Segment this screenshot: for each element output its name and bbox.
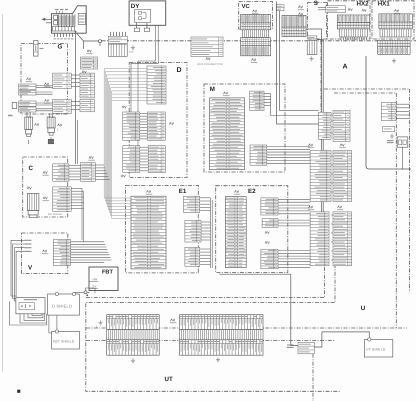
svg-text:HX2: HX2 [357, 1, 370, 8]
S lower comb [307, 40, 317, 54]
M upper right connector [250, 91, 264, 110]
wire E2 bottom to UT interlock [219, 274, 298, 345]
A interconnect strip P2 left [310, 151, 331, 202]
shield interconnection wires [49, 291, 89, 333]
CRT socket top pin labels 42 43 11 [55, 9, 68, 11]
board UT outline [86, 264, 340, 391]
board U outline right edge [395, 93, 397, 328]
wire below plug G1 [28, 140, 30, 144]
wires C upper to relay block [69, 165, 81, 180]
junction dot at socket corner [75, 31, 77, 33]
connector icon P1 left [309, 144, 313, 146]
svg-text:A: A [343, 64, 348, 71]
C lower connector [53, 187, 71, 211]
svg-text:HR: HR [93, 278, 99, 282]
DY yoke connector cells [108, 36, 127, 43]
svg-text:E2: E2 [248, 188, 256, 195]
links between P strips [331, 115, 333, 260]
arrow to CRT socket [42, 18, 51, 23]
board HX1 outline [372, 1, 414, 39]
DY lead wires to D board [131, 25, 158, 150]
wires M upper right bundle to A [264, 94, 319, 116]
connector icon V [43, 250, 47, 252]
connector icon above C relay [89, 156, 93, 158]
wires E1 right connectors to channel [200, 198, 213, 268]
wires C lower to vertical pair [71, 188, 83, 242]
connector icon HX1 [395, 10, 399, 12]
connector icon E2 a [265, 231, 269, 233]
board A outline right edge [409, 89, 411, 292]
svg-text:Lxx: Lxx [129, 51, 134, 54]
ground icon below S comb [310, 57, 314, 61]
svg-text:G: G [58, 44, 63, 51]
UT interlock 3-row block [298, 342, 314, 354]
board A inner top line [324, 88, 410, 90]
board E1 outline [126, 185, 199, 273]
svg-text:BUS CONNECTOR: BUS CONNECTOR [198, 63, 223, 66]
ground icon below UT strip 2 [216, 358, 220, 362]
connector icon C upper [43, 171, 47, 173]
connector G-left row pair d [19, 107, 36, 112]
svg-text:UT SHIELD: UT SHIELD [366, 348, 386, 352]
board G outline [21, 44, 68, 115]
connector icon D bottom-left [121, 175, 125, 177]
wires M lower right to A strips [267, 147, 310, 164]
connector icon D left [122, 106, 126, 108]
UT lower junction line [86, 340, 335, 342]
wires plugs up [27, 112, 53, 118]
CRT socket top label ticks [57, 11, 63, 14]
connector icon above M strip [224, 92, 228, 94]
E2 right connector lower [261, 249, 278, 269]
svg-text:FBT: FBT [102, 270, 113, 276]
wires V to E1 [71, 242, 112, 263]
wire socket to C column [75, 32, 77, 164]
UT strip 1 pin hatch [107, 330, 160, 340]
wire socket pins to node [77, 33, 99, 49]
U board connector [381, 103, 396, 121]
long wire VC to M pair b [280, 11, 319, 111]
board A outline left edge [320, 41, 322, 112]
HX1 lower comb on A [378, 40, 410, 54]
CRT socket inner elements [54, 15, 58, 25]
connector icon above E2 strip [235, 190, 239, 192]
VC right comb (to S) [282, 15, 306, 36]
CRT socket side label box [78, 14, 85, 25]
fuse label [40, 48, 44, 50]
svg-text:M: M [210, 86, 215, 93]
dash-dot stub below UT interlock block [312, 354, 314, 401]
E2 right connector ac [262, 219, 278, 228]
E1 right connector upper [184, 196, 200, 212]
wire AC box drop [402, 147, 404, 169]
ground icon near yoke connector [131, 46, 135, 50]
board D outline [129, 63, 187, 178]
HX1 cable hatch [380, 29, 411, 37]
E1 board main strip [131, 196, 166, 269]
wires C relay to E1 bundle [95, 165, 109, 180]
node circle on bus [99, 40, 102, 43]
board E2 outline [216, 186, 288, 273]
connector icon E2 b [265, 241, 269, 243]
wires U connector to A edge [396, 104, 410, 118]
CRT socket pin name labels [54, 38, 74, 40]
svg-text:UT: UT [165, 376, 173, 383]
page artifact mark bottom-left [17, 390, 20, 393]
svg-text:E1: E1 [179, 188, 187, 195]
ground icon below UT strip 1 [131, 358, 135, 362]
connector G-mid upper [53, 73, 72, 89]
links between D pair blocks lower [140, 147, 149, 171]
board DY box [129, 1, 166, 25]
ground icon below HX1 lower comb [392, 59, 396, 63]
DY terminal a [134, 28, 139, 31]
AC icon left of interlock [287, 345, 294, 347]
connector icon VC top [253, 10, 257, 12]
board M outline [204, 84, 285, 172]
junction dot below shield node [86, 294, 88, 296]
power unit boundary wire [366, 56, 411, 169]
U small relay box [383, 126, 395, 131]
ground icon U region [390, 134, 394, 138]
connector icon CN G-mid lower [45, 99, 49, 101]
connector icon CN G-mid upper [45, 83, 49, 85]
D pair block upper-right [147, 112, 165, 140]
svg-text:D SHIELD: D SHIELD [52, 304, 72, 309]
board C outline [23, 157, 68, 217]
svg-text:L: L [57, 128, 59, 132]
connector G-left row pair a [19, 84, 36, 90]
connector icon C lower [43, 197, 47, 199]
connector G-left row pair c [19, 101, 36, 106]
main bus dash-dot line [102, 40, 416, 42]
node tick [99, 43, 101, 46]
DY yoke connector pins [111, 32, 126, 36]
A interconnect strip P3 right [333, 212, 352, 266]
connector icon P2 right [338, 206, 342, 208]
D shield box [48, 292, 80, 315]
wire plug G2 to boot [50, 137, 52, 139]
board V outline [22, 233, 68, 274]
FBT pin lines [89, 282, 98, 289]
mid region outline at E-boards bottom [86, 264, 325, 298]
connector G-right upper [81, 57, 98, 69]
connector icon S left [299, 13, 303, 15]
connector icon VC aux [298, 6, 302, 8]
links between D pair blocks upper [140, 113, 148, 138]
DY pin stubs [137, 23, 147, 29]
plug P-G2 [47, 117, 55, 135]
DY inner component box [135, 9, 151, 22]
DY yoke connector body [108, 44, 127, 56]
M board main connector strip [210, 98, 245, 170]
wires G-left to G-mid [36, 86, 53, 111]
CRT socket pin number strip [52, 27, 74, 31]
D pair block lower-right [148, 146, 165, 173]
connector icon HX2 a [348, 8, 352, 10]
connector G-right middle [80, 73, 94, 98]
UT strip 2 upper cells [180, 315, 264, 330]
DY terminal b [144, 28, 149, 31]
wire fan D connector to E1 (bundle) [104, 69, 147, 219]
UT strip 1 lower cells [107, 340, 160, 355]
E1 right connector lower [185, 247, 200, 266]
connector icon P2 left [309, 206, 313, 208]
A-M interconnect strip P1 right [333, 110, 350, 141]
VC aux 2-cell box [276, 5, 284, 11]
wire S comb to A verticals [306, 29, 323, 264]
small aux box far left [12, 103, 17, 109]
CRT socket G1 outline [52, 6, 87, 33]
wires E2 right connectors to A strips [278, 199, 310, 267]
board VC outline [239, 2, 273, 30]
UT strip 2 lower cells [180, 340, 264, 355]
svg-text:S: S [314, 0, 318, 7]
board S outline [308, 3, 327, 40]
HX2 cable hatch [340, 29, 368, 37]
plug P-C (CRT neck) [27, 194, 39, 218]
UT shield box [364, 338, 393, 357]
connector icon HX2 b [362, 9, 366, 11]
wires V terminals to left loop [11, 240, 25, 303]
connector icon CN G-left upper [27, 78, 31, 80]
board U outline top [334, 92, 396, 94]
D pair block lower-left [123, 146, 140, 173]
connector icon G-A lead [87, 50, 91, 52]
AC inlet box [397, 137, 408, 147]
E2 board main strip [225, 197, 246, 268]
svg-text:NO SIGNAL: NO SIGNAL [48, 213, 63, 216]
svg-text:FBT SHIELD: FBT SHIELD [53, 340, 75, 344]
svg-text:VC: VC [242, 3, 251, 10]
AC plug icon [387, 141, 394, 143]
S small cell row [307, 36, 317, 39]
connector G-mid lower [53, 99, 72, 113]
E2 right connector upper [261, 198, 278, 215]
connector icon below VC [252, 59, 256, 61]
wires G-mid to G-right [71, 75, 80, 110]
plug P-G2 dark boot [48, 139, 53, 144]
svg-text:E: E [96, 326, 98, 329]
M lower right connector [250, 145, 267, 165]
wires S to HX2 stack [318, 8, 326, 10]
D pair block upper-left [123, 112, 140, 140]
connector G-right lower [80, 99, 94, 111]
ground icon UT left [99, 321, 103, 325]
long wire VC to M pair a [277, 2, 319, 125]
A interconnect strip P2 right [333, 151, 352, 202]
connector icon D right [169, 122, 173, 124]
wire parallel to socket column [76, 120, 78, 164]
VC cable hatch [243, 30, 269, 38]
HX2 relay stack [326, 6, 346, 13]
bus connector block [191, 37, 223, 57]
connector icon above E1 strip [147, 190, 151, 192]
C relay block [80, 163, 95, 182]
board HX2 outline [328, 1, 371, 39]
HX1 connector comb [379, 14, 413, 29]
A-M interconnect strip P1 left [319, 112, 332, 139]
wire interlock to UT shield [314, 332, 369, 347]
E1 right connector middle [185, 221, 201, 243]
VC connector comb lower (to M) [241, 38, 271, 56]
V board connector [53, 240, 70, 266]
CRT socket pin lines [57, 15, 75, 27]
fuse F1 [34, 41, 39, 57]
page edge artifact left [2, 14, 4, 372]
UT strip 1 upper cells [107, 315, 160, 330]
svg-text:D: D [177, 67, 182, 74]
svg-text:DY: DY [131, 3, 140, 10]
connector icon G-right mid [82, 71, 86, 73]
V board terminal texts [25, 240, 32, 251]
degauss loop wires [9, 302, 46, 326]
degauss module box [16, 297, 45, 313]
svg-text:U: U [361, 305, 366, 312]
svg-text:HX1: HX1 [378, 1, 391, 8]
C upper connector [53, 164, 69, 181]
FBT shield box [52, 330, 80, 349]
connector icon plug G2 [58, 124, 62, 126]
CRT socket bottom pin stubs [55, 33, 73, 37]
HX2 pins into A [341, 37, 366, 40]
A interconnect strip P3 left [310, 212, 329, 266]
svg-text:C: C [29, 165, 34, 172]
connector icon bus connector [206, 58, 210, 60]
connector icon P1 right [340, 144, 344, 146]
plug P-G1 (neck) [25, 117, 33, 137]
HX2 connector comb [337, 15, 369, 29]
connector icon C plug [27, 187, 31, 189]
connector icon between UT strips [171, 319, 175, 321]
connector icon plug G1 [35, 123, 39, 125]
FBT box [89, 267, 118, 291]
UT strip 2 pin hatch [180, 330, 264, 340]
wire FBT to shield node [86, 288, 96, 293]
connector G-left row pair b [19, 91, 36, 96]
D board top connector [147, 66, 166, 104]
tiny ref mark below aux box [8, 115, 13, 117]
board A / U bottom line [86, 327, 407, 329]
VC connector comb upper [241, 14, 271, 29]
